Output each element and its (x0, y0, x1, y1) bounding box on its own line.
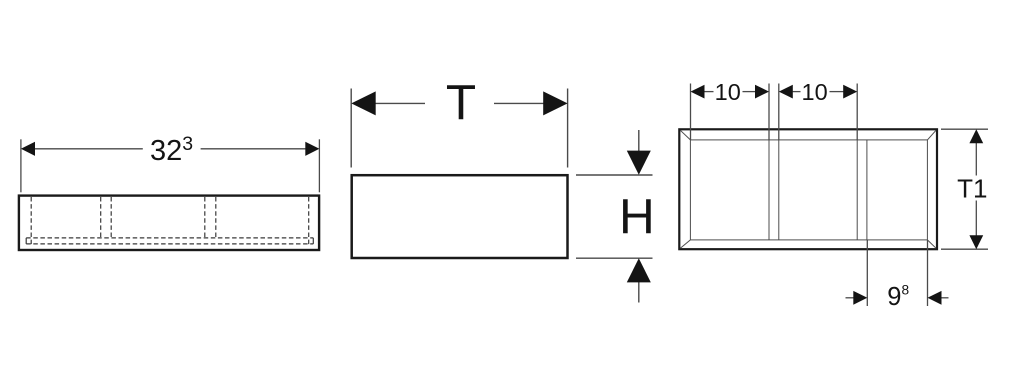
svg-text:10: 10 (802, 79, 828, 105)
svg-text:98: 98 (887, 283, 909, 311)
svg-text:323: 323 (150, 133, 193, 167)
svg-text:10: 10 (715, 79, 741, 105)
svg-text:T1: T1 (957, 174, 987, 204)
svg-text:H: H (619, 189, 655, 244)
svg-text:T: T (446, 75, 476, 130)
